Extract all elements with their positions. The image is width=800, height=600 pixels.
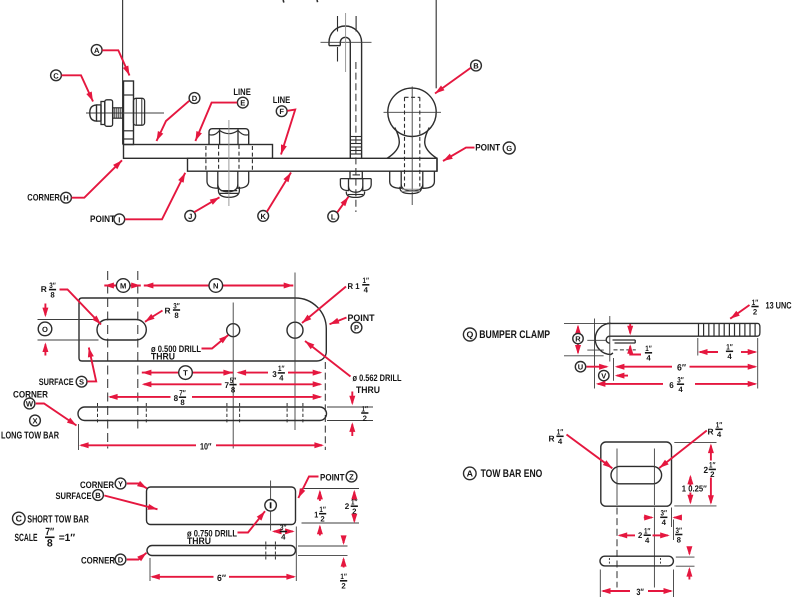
svg-text:C: C: [16, 514, 23, 524]
dim N: [144, 279, 293, 293]
label R 3/8 left: [41, 281, 101, 325]
svg-text:J: J: [188, 212, 192, 221]
svg-text:R: R: [549, 434, 555, 444]
svg-text:4: 4: [646, 354, 651, 363]
svg-text:P: P: [354, 324, 359, 333]
svg-text:THRU: THRU: [356, 384, 380, 395]
label R 1 1/4: [302, 276, 369, 323]
svg-text:1: 1: [314, 509, 318, 519]
note 0.750 drill: [187, 511, 265, 546]
dim 3/8 arrows: [686, 546, 692, 579]
svg-text:R: R: [41, 284, 47, 294]
label D CORNER: [81, 553, 147, 566]
bolt J hidden shank: [219, 145, 239, 171]
svg-text:2: 2: [320, 515, 325, 524]
svg-text:A: A: [467, 468, 474, 478]
dim 1/2 side: [349, 392, 368, 437]
text LONG TOW BAR: [1, 430, 60, 441]
dim 1 1/2: [314, 490, 326, 536]
svg-text:3″: 3″: [661, 509, 668, 518]
svg-text:POINT: POINT: [90, 213, 115, 224]
label Q BUMPER CLAMP: [463, 328, 550, 341]
side thickness ext: [327, 407, 373, 421]
svg-text:H: H: [63, 194, 68, 203]
bolt C back nut: [134, 98, 145, 125]
end plate top view: [601, 442, 672, 506]
label K: [258, 173, 291, 222]
slot centerline left: [616, 449, 618, 588]
svg-text:1 0.25″: 1 0.25″: [682, 483, 708, 493]
svg-text:1″: 1″: [752, 298, 759, 307]
svg-text:Y: Y: [118, 480, 123, 489]
ext lines right top: [302, 489, 360, 524]
ext line M left: [107, 271, 109, 449]
label B: [435, 60, 481, 93]
long bar side view: [78, 407, 327, 421]
svg-text:BUMPER CLAMP: BUMPER CLAMP: [479, 329, 550, 341]
thread ext: [698, 338, 758, 389]
svg-text:1″: 1″: [340, 572, 347, 581]
dim 1/4 thread: [698, 343, 757, 362]
ext side bar end: [673, 520, 675, 598]
dim 2 1/2: [341, 490, 358, 545]
svg-text:L: L: [331, 212, 336, 221]
svg-text:8: 8: [50, 290, 55, 299]
hole1 centerline: [232, 303, 234, 449]
svg-text:D: D: [118, 556, 124, 565]
svg-text:B: B: [95, 491, 101, 500]
svg-text:G: G: [506, 144, 512, 153]
svg-text:POINT: POINT: [348, 312, 375, 323]
svg-text:F: F: [279, 107, 284, 116]
bolt C centerline: [86, 112, 164, 114]
dim 8 7/8: [108, 389, 322, 408]
svg-text:1″: 1″: [726, 343, 733, 352]
bolt J hidden corner lines: [206, 146, 253, 171]
svg-text:4: 4: [279, 374, 284, 383]
ext side bar right: [676, 557, 695, 566]
cropped title mark 1: [282, 0, 285, 3]
ball vert centerline: [411, 87, 413, 206]
clamp hook: [595, 323, 613, 354]
label E LINE: [195, 86, 250, 141]
svg-text:1″: 1″: [709, 461, 716, 470]
svg-text:3″: 3″: [49, 281, 56, 290]
svg-text:SURFACE: SURFACE: [56, 490, 92, 501]
svg-text:THRU: THRU: [187, 535, 211, 546]
side view hidden lines: [98, 403, 303, 425]
svg-text:SCALE: SCALE: [15, 532, 38, 544]
ext 3in left: [599, 570, 601, 598]
svg-text:4: 4: [717, 430, 722, 439]
svg-text:8: 8: [174, 393, 179, 403]
lower bar (long tow bar side view): [188, 158, 438, 171]
J-hook center ticks: [338, 16, 357, 62]
svg-text:LONG TOW BAR: LONG TOW BAR: [1, 430, 60, 441]
svg-text:3″: 3″: [676, 526, 683, 535]
clamp shaft: [607, 323, 760, 336]
ext lines right bottom: [298, 546, 348, 556]
svg-text:2: 2: [753, 307, 758, 316]
label R 1/4 left: [549, 428, 613, 469]
side view hidden marks: [609, 558, 660, 564]
svg-text:W: W: [26, 400, 34, 409]
svg-text:1″: 1″: [645, 344, 652, 353]
hook tip hidden: [614, 349, 636, 351]
svg-text:Q: Q: [466, 330, 473, 340]
svg-text:D: D: [192, 94, 198, 103]
svg-text:7: 7: [225, 380, 230, 390]
svg-text:3: 3: [272, 369, 277, 379]
svg-text:2: 2: [704, 465, 709, 475]
side hidden hole: [266, 542, 276, 560]
svg-text:CORNER: CORNER: [81, 555, 115, 566]
svg-text:1″: 1″: [363, 276, 370, 285]
note 0.500 drill: [151, 335, 228, 362]
svg-text:4: 4: [645, 536, 650, 545]
ball horiz centerline: [384, 111, 442, 113]
label Z POINT: [298, 471, 357, 498]
J-hook body: [329, 26, 362, 158]
dim 10in: [79, 441, 324, 451]
label Y CORNER: [80, 478, 147, 490]
bolt J threaded tip: [218, 187, 239, 198]
svg-text:1″: 1″: [278, 364, 285, 373]
dim M: [104, 279, 141, 293]
dim R: [573, 325, 583, 355]
bolt C acorn head: [90, 105, 101, 121]
svg-text:8: 8: [677, 535, 682, 544]
J-hook threads: [350, 137, 361, 155]
label F LINE: [273, 94, 295, 155]
svg-text:4: 4: [281, 532, 286, 541]
label I POINT: [90, 173, 185, 225]
bolt J head: [209, 129, 249, 145]
bolt C nut: [105, 100, 113, 127]
svg-text:T: T: [183, 369, 188, 378]
ext dims right: [324, 362, 326, 450]
svg-text:S: S: [79, 378, 84, 387]
svg-text:TOW BAR ENO: TOW BAR ENO: [481, 468, 543, 480]
svg-text:SURFACE: SURFACE: [39, 376, 74, 387]
svg-text:1″: 1″: [319, 505, 326, 514]
svg-text:K: K: [260, 212, 266, 221]
label X: [30, 415, 41, 426]
bolt J centerline: [228, 120, 230, 206]
tow bar end bracket: [124, 81, 134, 145]
svg-text:1″: 1″: [557, 428, 564, 437]
hole centerline: [270, 481, 272, 531]
end plate side view: [600, 556, 673, 566]
dim 3/4 end: [644, 509, 682, 528]
svg-text:R: R: [708, 427, 714, 437]
svg-text:1″: 1″: [362, 404, 369, 413]
ext 6in left: [149, 558, 151, 581]
svg-text:LINE: LINE: [273, 94, 290, 105]
dim 3/8 text: [675, 526, 682, 545]
label H CORNER: [27, 160, 122, 203]
svg-text:8: 8: [231, 385, 236, 394]
slot ext lines: [38, 320, 99, 341]
short bar side view: [147, 546, 296, 556]
svg-text:13 UNC: 13 UNC: [766, 300, 792, 311]
long tow bar top view outline: [79, 298, 326, 361]
slot in long bar: [97, 320, 146, 341]
lower bar right edge: [436, 158, 438, 171]
dim 6 3/4: [596, 376, 758, 395]
ball hidden stud: [405, 97, 420, 186]
svg-text:7″: 7″: [179, 389, 186, 398]
dim 1/4 hook: [627, 324, 652, 363]
J-hook nut cap: [346, 192, 364, 198]
label C: [51, 70, 93, 102]
label R 1/4 right: [659, 421, 722, 468]
svg-text:2: 2: [363, 414, 368, 423]
bolt C washer: [101, 102, 105, 125]
svg-text:Z: Z: [349, 473, 354, 482]
dim V: [599, 370, 628, 380]
label C SHORT TOW BAR: [12, 512, 89, 525]
svg-text:CORNER: CORNER: [80, 479, 114, 490]
slot centerline right: [653, 449, 655, 588]
svg-text:4: 4: [558, 437, 563, 446]
svg-text:LINE: LINE: [233, 86, 250, 97]
svg-text:3″: 3″: [636, 587, 644, 597]
ext line M right: [137, 271, 139, 430]
svg-text:2: 2: [345, 502, 350, 511]
ext plate edge: [671, 508, 673, 528]
svg-text:ø 0.562 DRILL: ø 0.562 DRILL: [353, 372, 402, 383]
svg-text:POINT: POINT: [320, 472, 345, 483]
label D: [157, 93, 200, 141]
ball stud tip: [400, 187, 422, 194]
dim 1/2 bottom: [340, 557, 347, 591]
svg-text:I: I: [118, 215, 120, 224]
svg-text:C: C: [53, 71, 59, 80]
svg-text:E: E: [240, 99, 245, 108]
svg-text:5″: 5″: [230, 376, 237, 385]
svg-text:M: M: [120, 282, 126, 291]
bolt C shank threads: [113, 108, 124, 118]
hole 0.500 drill: [227, 324, 240, 337]
label L: [328, 197, 349, 222]
svg-text:4: 4: [678, 385, 683, 394]
label J: [185, 197, 220, 221]
hole2 centerline: [294, 273, 296, 431]
svg-text:4: 4: [364, 286, 369, 295]
R ext lines: [564, 323, 607, 355]
hook tip: [613, 340, 636, 343]
clamp ext verticals: [595, 316, 614, 389]
J-hook horiz centerline: [321, 41, 372, 43]
dim 1 0.25: [682, 475, 708, 505]
ext right: [295, 527, 297, 582]
hitch ball sphere: [388, 88, 436, 136]
svg-text:2: 2: [341, 582, 346, 591]
svg-text:R: R: [165, 306, 171, 316]
svg-text:6″: 6″: [677, 362, 687, 372]
svg-text:6″: 6″: [217, 573, 227, 583]
svg-text:SHORT TOW BAR: SHORT TOW BAR: [27, 515, 89, 526]
note 1/2 13UNC: [730, 298, 791, 319]
ext bottom right: [674, 505, 716, 507]
svg-text:B: B: [473, 62, 479, 71]
svg-text:4: 4: [727, 352, 732, 361]
label B SURFACE: [56, 490, 158, 510]
svg-text:8: 8: [47, 537, 53, 549]
clamp centerlines: [587, 340, 607, 350]
short bar top view: [147, 487, 296, 525]
svg-text:1″: 1″: [351, 498, 358, 507]
dim 3 1/4: [237, 364, 323, 383]
ext 10in left: [78, 424, 80, 450]
label A TOW BAR ENO: [464, 467, 543, 480]
dim U: [575, 362, 608, 372]
hole I (0.750 drill): [265, 500, 277, 512]
dim T: [142, 366, 233, 380]
svg-text:1″: 1″: [644, 527, 651, 536]
dim 3/4 hole: [272, 523, 295, 542]
hole 0.562 drill: [287, 322, 303, 338]
dim 6in clamp: [615, 362, 758, 372]
svg-text:1″: 1″: [716, 421, 723, 430]
ext top right: [674, 441, 716, 443]
J-hook vert centerline: [345, 13, 347, 72]
dim O: [38, 304, 52, 356]
cropped title mark 2: [316, 0, 319, 2]
dim 3in: [601, 587, 673, 597]
end plate slot: [611, 466, 662, 483]
ball nut: [390, 171, 435, 191]
svg-text:N: N: [213, 282, 218, 291]
label S SURFACE: [39, 348, 96, 388]
svg-text:8: 8: [180, 398, 185, 407]
svg-text:CORNER: CORNER: [27, 192, 60, 203]
svg-text:6: 6: [669, 380, 674, 390]
svg-text:THRU: THRU: [151, 351, 175, 362]
svg-text:O: O: [42, 325, 48, 334]
clamp threads: [699, 323, 756, 336]
svg-text:3″: 3″: [677, 376, 684, 385]
J-hook washer: [350, 171, 362, 178]
svg-text:4: 4: [662, 518, 667, 527]
svg-text:=1″: =1″: [59, 532, 75, 544]
label G POINT: [443, 142, 515, 161]
svg-text:R: R: [575, 335, 581, 344]
dim 2 1/4 end: [618, 527, 670, 546]
svg-text:A: A: [94, 46, 100, 55]
svg-text:10″: 10″: [200, 441, 212, 451]
car body line left: [122, 0, 124, 145]
label A: [91, 45, 129, 76]
svg-text:R 1: R 1: [348, 281, 360, 291]
car body line right: [435, 0, 437, 88]
hitch ball neck: [387, 128, 437, 159]
label W CORNER: [13, 389, 77, 426]
J-hook nut: [340, 179, 371, 193]
svg-text:X: X: [32, 417, 37, 426]
bolt J nut: [207, 171, 249, 191]
svg-text:POINT: POINT: [475, 142, 500, 153]
text SCALE: [15, 526, 76, 549]
svg-text:3″: 3″: [173, 301, 180, 310]
label R 3/8 right: [145, 301, 180, 322]
svg-text:3″: 3″: [280, 523, 287, 532]
dim 2 1/2 end: [704, 444, 716, 505]
dim 6in: [150, 573, 296, 583]
dim 7 5/8: [142, 376, 322, 395]
upper bar (short tow bar side view): [124, 145, 273, 159]
svg-text:V: V: [601, 372, 606, 381]
J-hook dashed centerline: [355, 62, 357, 212]
svg-text:2: 2: [638, 531, 643, 540]
label P POINT: [330, 312, 375, 333]
svg-text:U: U: [578, 363, 583, 372]
note 0.562 drill: [305, 341, 402, 395]
svg-text:8: 8: [174, 311, 179, 320]
